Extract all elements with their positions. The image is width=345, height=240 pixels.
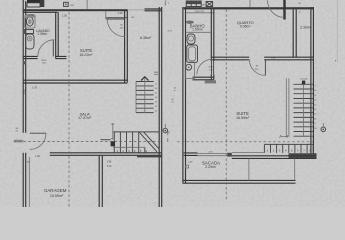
svg-text:9.05m²: 9.05m² [240, 25, 251, 29]
svg-text:2.10: 2.10 [107, 166, 112, 168]
svg-text:16.59m²: 16.59m² [236, 116, 250, 120]
svg-text:Desvão: Desvão [300, 77, 308, 80]
svg-text:1.50m²: 1.50m² [192, 27, 203, 31]
svg-text:2.05m²: 2.05m² [37, 32, 47, 36]
svg-text:1.40: 1.40 [35, 155, 40, 158]
svg-text:16: 16 [155, 88, 157, 90]
svg-text:6.36m²: 6.36m² [140, 36, 152, 40]
svg-text:14: 14 [155, 97, 157, 99]
svg-text:1.78: 1.78 [32, 86, 37, 89]
svg-text:1.26: 1.26 [118, 12, 123, 15]
svg-text:9: 9 [315, 86, 316, 88]
svg-text:14: 14 [314, 109, 316, 111]
svg-text:15.59m²: 15.59m² [50, 194, 64, 198]
svg-text:18: 18 [314, 128, 316, 130]
svg-text:11: 11 [155, 111, 157, 113]
svg-text:15: 15 [314, 114, 316, 116]
svg-text:15: 15 [155, 93, 157, 95]
svg-text:2.36m²: 2.36m² [300, 25, 311, 29]
svg-text:13: 13 [155, 102, 157, 104]
svg-text:70/21: 70/21 [208, 67, 214, 69]
svg-text:1.50 2.03: 1.50 2.03 [194, 11, 204, 13]
svg-text:2.03: 2.03 [62, 15, 67, 18]
svg-text:GARAGEM: GARAGEM [44, 188, 67, 193]
svg-text:1.73: 1.73 [28, 14, 33, 17]
svg-text:2.29m²: 2.29m² [205, 165, 217, 169]
svg-text:17.37m²: 17.37m² [78, 116, 92, 120]
svg-text:16.22m²: 16.22m² [79, 53, 93, 57]
svg-text:16: 16 [314, 118, 316, 120]
svg-text:1.96: 1.96 [107, 161, 112, 163]
svg-text:13: 13 [314, 104, 316, 106]
svg-text:126: 126 [131, 17, 134, 19]
svg-text:2.80: 2.80 [24, 89, 26, 94]
svg-text:10: 10 [314, 90, 316, 92]
svg-text:80/21: 80/21 [41, 60, 47, 62]
svg-text:17: 17 [314, 123, 316, 125]
svg-text:17: 17 [155, 84, 157, 86]
svg-text:12: 12 [314, 100, 316, 102]
svg-text:12: 12 [155, 106, 157, 108]
svg-text:11: 11 [314, 95, 316, 97]
